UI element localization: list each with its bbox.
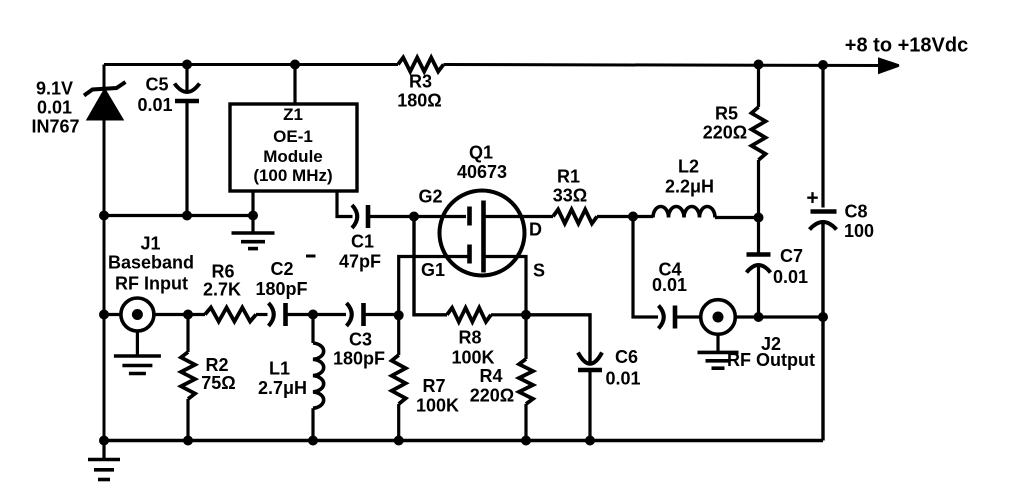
wire Z1 right pin [337,191,353,217]
node Z1 pin top bus [290,60,300,70]
node C5 top bus [182,60,192,70]
resistor R2 [181,352,195,399]
wire drain node to C4 [633,217,658,318]
svg-text:G2: G2 [418,187,442,207]
wire source lead [484,257,527,315]
capacitor C3 curved plate [347,303,352,326]
svg-text:R2: R2 [205,355,228,375]
transistor Q1 gate2 bar [467,207,472,226]
ground under J1 [136,331,139,356]
svg-text:0.01: 0.01 [652,275,687,295]
node C8 rail / J2 row [818,312,828,322]
wire R7 bottom lead [397,404,400,441]
node R7 bottom [394,436,404,446]
svg-text:100K: 100K [451,348,494,368]
wire R4 bottom lead [524,404,527,441]
node L2 / R5 / C7 [754,213,764,223]
svg-text:9.1V: 9.1V [36,79,73,99]
svg-text:C6: C6 [615,347,638,367]
wire C8 top lead [821,65,824,208]
resistor R8 [447,308,491,322]
svg-text:220Ω: 220Ω [470,386,514,406]
wire C7 top lead [757,218,760,255]
capacitor C8 straight plate [811,209,837,213]
wire source node to C6 [526,315,590,362]
stray mark above C2 [306,255,316,258]
ground under Z1 [251,216,254,234]
wire top supply bus left segment [104,63,398,66]
svg-text:J1: J1 [140,234,160,254]
module Z1 box [230,104,357,191]
node R4 bottom [521,436,531,446]
capacitor C5 curved plate [175,84,200,93]
svg-text:+: + [806,187,818,210]
node G2 [409,212,419,222]
ground main [102,441,105,460]
wire C1 to G2 [368,215,466,218]
wire C3 to G1 node [364,313,399,316]
wire R7 top lead [397,315,400,355]
node left rail / mid row [99,211,109,221]
connector J1 outer circle [121,298,154,331]
svg-text:IN767: IN767 [31,117,79,137]
capacitor C6 curved plate [578,353,602,364]
zener diode body [88,90,123,120]
capacitor C6 straight plate [578,368,602,372]
capacitor C2 straight plate [283,303,288,326]
wire C4 to J2 [675,315,701,318]
resistor R6 [205,308,256,322]
svg-text:R6: R6 [211,262,234,282]
svg-text:47pF: 47pF [339,252,381,272]
wire R5 bottom lead [757,160,760,218]
capacitor C1 straight plate [366,205,371,228]
resistor R3 [398,58,444,72]
wire R1 to L2 node [597,215,653,218]
node C5 mid row [182,211,192,221]
wire bottom ground bus [104,439,823,442]
svg-text:RF Input: RF Input [115,274,188,294]
transistor Q1 channel bar [481,201,486,273]
node R2 bottom [183,436,193,446]
wire L1 top lead [311,315,314,344]
resistor R4 [519,359,533,404]
svg-text:D: D [529,220,542,240]
svg-text:100: 100 [844,221,874,241]
svg-text:0.01: 0.01 [37,98,72,118]
wire drain lead [484,215,554,218]
supply arrow head [878,57,899,74]
svg-text:Baseband: Baseband [108,253,194,273]
svg-text:2.2μH: 2.2μH [665,177,714,197]
svg-text:C7: C7 [780,246,803,266]
wire C7 bottom lead [757,266,760,317]
svg-text:C2: C2 [270,259,293,279]
svg-text:OE-1: OE-1 [273,127,313,146]
transistor Q1 gate1 bar [467,245,472,264]
wire R6 to C2 [256,313,268,316]
svg-text:Module: Module [263,147,323,166]
svg-text:75Ω: 75Ω [201,373,235,393]
svg-text:C3: C3 [349,330,372,350]
node drain / C4 branch [628,212,638,222]
svg-text:RF Output: RF Output [727,350,815,370]
svg-text:R7: R7 [422,376,445,396]
svg-text:C8: C8 [844,202,867,222]
capacitor C3 straight plate [361,303,366,326]
wire C5 bottom lead [185,101,188,216]
node C6 bottom [585,436,595,446]
svg-text:R8: R8 [458,328,481,348]
wire left vertical rail [103,65,106,441]
wire C6 bottom lead [588,370,591,441]
svg-text:220Ω: 220Ω [703,123,747,143]
wire R2 top lead [186,315,189,353]
wire Z1 left pin [251,191,254,216]
node R5 top bus [754,60,764,70]
svg-text:180pF: 180pF [333,349,385,369]
wire R4 top lead [524,315,527,359]
svg-text:180Ω: 180Ω [397,91,441,111]
wire G2 to R8 [414,217,447,315]
capacitor C1 curved plate [352,205,357,228]
transistor Q1 body circle [440,191,525,276]
wire mid-left row [104,214,253,217]
inductor L2 [653,207,715,218]
connector J2 outer circle [701,300,736,335]
svg-text:2.7K: 2.7K [203,280,241,300]
capacitor C8 curved plate [810,222,837,230]
svg-text:L2: L2 [678,157,699,177]
svg-text:C5: C5 [145,75,168,95]
svg-text:R5: R5 [715,104,738,124]
wire right rail [821,223,824,441]
svg-text:Z1: Z1 [283,105,303,124]
svg-text:180pF: 180pF [255,279,307,299]
wire top supply bus right segment [444,65,883,66]
wire R5 top lead [757,65,760,108]
wire L2 to R5 node [715,216,759,219]
capacitor C4 straight plate [673,306,678,329]
svg-text:0.01: 0.01 [773,267,808,287]
node left rail / J1 row [99,310,109,320]
wire left rail to J1 [104,313,121,316]
svg-text:100K: 100K [416,396,459,416]
svg-text:R3: R3 [409,72,432,92]
wire Z1 top pin [293,65,296,105]
svg-text:(100 MHz): (100 MHz) [253,166,332,185]
node L1 top [308,310,318,320]
svg-text:C1: C1 [351,232,374,252]
node Z1 left pin / mid row [248,211,258,221]
node C8 top bus [818,60,828,70]
resistor R5 [752,107,766,160]
connector J1 center pin [132,309,143,320]
svg-text:33Ω: 33Ω [553,186,587,206]
wire C2 to C3 [286,313,347,316]
capacitor C2 curved plate [269,303,274,326]
wire L1 bottom lead [311,408,314,440]
svg-text:R1: R1 [557,167,580,187]
svg-text:R4: R4 [479,366,502,386]
svg-text:L1: L1 [269,359,290,379]
svg-text:0.01: 0.01 [605,369,640,389]
wire J1 to R6 [154,313,205,316]
svg-text:2.7μH: 2.7μH [258,378,307,398]
node source / R8 / R4 [521,310,531,320]
node R2 top [183,310,193,320]
connector J2 center pin [713,312,724,323]
node bottom bus left [99,436,109,446]
svg-text:+8 to +18Vdc: +8 to +18Vdc [845,35,968,57]
wire R8 to source node [491,313,526,316]
svg-text:0.01: 0.01 [137,95,172,115]
svg-text:Q1: Q1 [469,143,493,163]
wire R2 bottom lead [186,399,189,441]
node C7 / J2 row [754,312,764,322]
svg-text:40673: 40673 [457,162,507,182]
ground under J2 [716,334,719,352]
resistor R7 [392,355,406,404]
node L1 bottom [308,436,318,446]
capacitor C5 straight plate [175,99,199,103]
capacitor C7 curved plate [747,265,771,273]
zener diode cathode bar [84,82,126,96]
wire J2 to right rail [735,315,823,318]
capacitor C4 curved plate [659,306,664,329]
svg-text:S: S [533,261,545,281]
wire C5 top lead [185,65,188,92]
node G1 / C3 / R7 [394,310,404,320]
resistor R1 [553,210,597,224]
inductor L1 [313,343,324,408]
wire G1 lead [399,257,470,316]
svg-text:G1: G1 [421,260,445,280]
capacitor C7 straight plate [747,252,771,256]
